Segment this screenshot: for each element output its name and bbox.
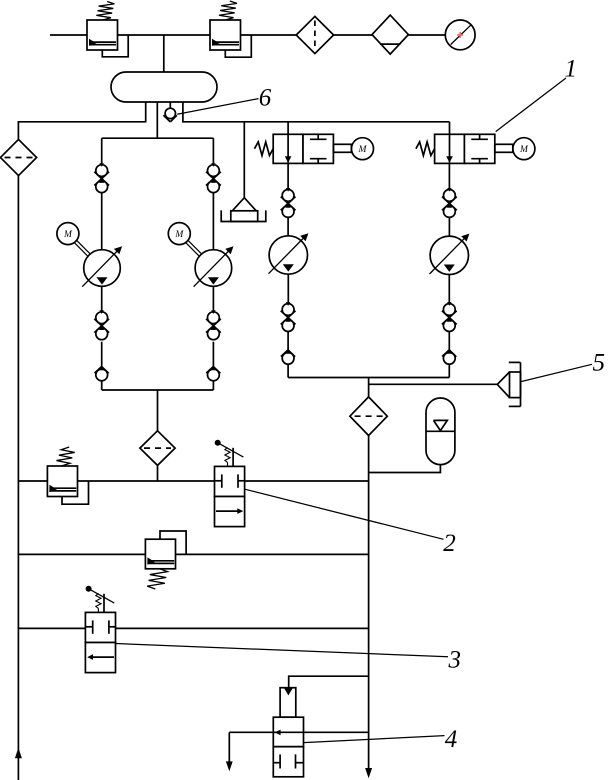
svg-text:3: 3: [448, 647, 462, 674]
label 6: [259, 85, 272, 112]
wire second column below pump: [212, 286, 214, 312]
label 4: [445, 726, 458, 753]
wire valve B feed: [449, 122, 451, 135]
wire right column upper: [212, 138, 214, 164]
wire right pump manifold: [288, 377, 449, 379]
wire second column to pump: [212, 193, 214, 250]
check valve pair A4: [442, 188, 457, 217]
wire left column to pump: [101, 193, 103, 250]
wire tank left outlet: [18, 102, 145, 140]
label 2: [443, 530, 456, 557]
wire valve B column bottom: [448, 364, 450, 377]
compressor P3: [269, 233, 309, 274]
wire long right vertical with down arrow: [365, 436, 372, 779]
svg-text:M: M: [63, 230, 73, 240]
wire valve A column upper: [287, 163, 289, 189]
check valve pair A1 (left column): [94, 163, 109, 192]
filter F1 (top line): [296, 16, 333, 53]
wire line L3: [18, 627, 368, 629]
label 1: [565, 56, 578, 83]
hand valve item 2: [215, 440, 245, 527]
check valve pair B4: [442, 302, 457, 331]
leader line 2: [245, 489, 444, 539]
pilot valve B (2/2 solenoid) item 1: [416, 134, 535, 163]
wire horn line: [369, 383, 498, 385]
wire pump manifold bottom: [102, 389, 214, 391]
label 3: [448, 647, 462, 674]
wire second column bottom: [212, 381, 214, 390]
wire line L2: [18, 553, 368, 555]
check valve C4 (single): [442, 350, 456, 364]
compressor P2: [194, 246, 234, 286]
check valve C2 (single): [206, 366, 220, 381]
wire tank center outlet: [156, 102, 158, 139]
wire top main line: [50, 34, 446, 36]
leader line 4: [304, 736, 445, 743]
wire left column bottom: [101, 381, 103, 390]
check valve pair B2: [206, 310, 221, 339]
leader line 1: [496, 78, 566, 132]
wire left column below pump: [101, 286, 103, 312]
drain funnel with tank: [221, 122, 266, 222]
wire manifold center drop: [157, 390, 159, 431]
pressure regulator V2 (top): [210, 1, 251, 57]
pilot valve item 4 (bottom): [273, 688, 303, 777]
wire valve A column mid: [287, 331, 289, 352]
leader line 3: [116, 644, 448, 657]
pressure regulator RV4 (middle): [145, 531, 186, 589]
svg-text:M: M: [358, 145, 368, 155]
compressor P1: [82, 246, 122, 286]
wire accumulator stem: [369, 465, 441, 473]
check valve C3 (single): [281, 350, 295, 364]
wire pump manifold top: [102, 137, 214, 139]
wire valve B column below pump: [448, 275, 450, 304]
leader line 6: [177, 99, 258, 115]
wire manifold drop right: [368, 378, 370, 398]
wire line L1: [18, 480, 368, 482]
wire left column upper: [101, 138, 103, 164]
wire valve A column to pump: [287, 217, 289, 236]
air receiver tank: [111, 72, 217, 102]
check valve 6 (on tank): [163, 102, 177, 122]
accumulator / lubricator: [426, 398, 455, 465]
wire left column mid: [101, 342, 103, 369]
compressor P4: [430, 234, 470, 275]
svg-text:5: 5: [593, 350, 606, 377]
check valve pair B1: [94, 310, 109, 339]
wire valve A column below pump: [287, 274, 289, 303]
filter F3 (center): [140, 431, 175, 466]
wire left vertical line with up arrow: [15, 176, 22, 780]
wire second column mid: [212, 342, 214, 369]
wire tank feed: [163, 35, 165, 72]
wire filter F3 to line: [157, 465, 159, 481]
svg-text:2: 2: [443, 530, 456, 557]
check valve pair B3: [281, 302, 296, 331]
label 5: [593, 350, 606, 377]
pressure regulator V1 (top left): [87, 2, 128, 57]
check valve pair A3: [281, 188, 296, 217]
svg-text:1: 1: [565, 56, 578, 83]
pilot valve A (2/2 solenoid): [255, 134, 374, 163]
wire valve B column to pump: [448, 217, 450, 236]
hand valve item 3: [85, 586, 115, 673]
pressure regulator RV3 (lower left): [47, 447, 88, 504]
filter F2 (left): [0, 139, 36, 175]
wire valve 4 drain with down arrow: [226, 732, 233, 771]
wire tank right outlet / supply line: [183, 102, 450, 122]
water separator (top line): [372, 15, 408, 54]
pressure gauge (top right): [445, 20, 475, 50]
wire valve 4 main line: [229, 731, 368, 733]
svg-text:4: 4: [445, 726, 458, 753]
motor M2: [168, 223, 201, 257]
wire valve B column mid: [448, 331, 450, 352]
horn / silencer item 5: [497, 362, 520, 406]
check valve pair A2 (second column): [206, 163, 221, 192]
wire valve A feed: [287, 122, 289, 135]
svg-text:6: 6: [259, 85, 272, 112]
filter F4 (right): [350, 397, 387, 436]
leader line 5: [522, 364, 593, 381]
svg-text:M: M: [519, 145, 529, 155]
svg-text:M: M: [174, 230, 184, 240]
wire valve B column upper: [448, 163, 450, 189]
motor M1: [57, 223, 90, 257]
check valve C1 (single): [95, 366, 109, 381]
wire valve A column bottom: [287, 364, 289, 377]
wire valve 4 top feed: [289, 676, 369, 688]
